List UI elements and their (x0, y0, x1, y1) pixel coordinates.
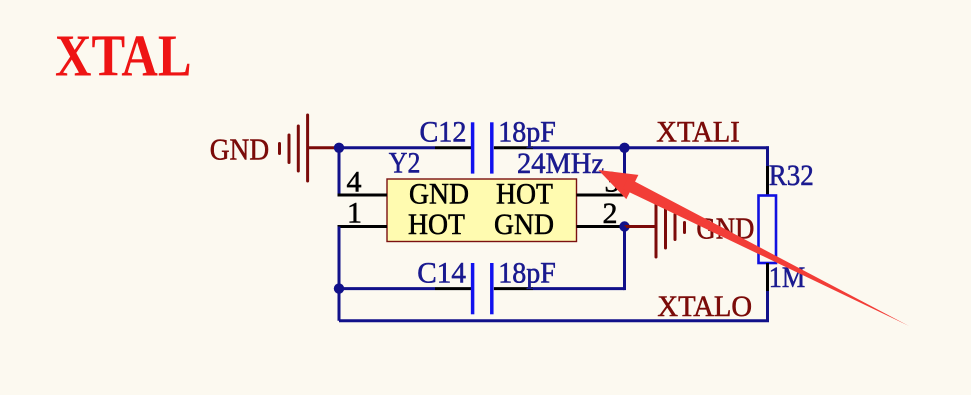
junction dot: pin 2 / GND node (619, 221, 629, 231)
svg-text:R32: R32 (769, 159, 814, 192)
wire: XTALI node to top-right corner (625, 146, 770, 149)
svg-text:XTALI: XTALI (656, 116, 740, 149)
wire: C12 right lead to XTALI node (533, 146, 625, 149)
annotation arrow (red) (598, 170, 909, 326)
svg-text:1: 1 (347, 197, 362, 230)
wire: C14 row right (533, 287, 625, 290)
wire: left vertical upper (GND node to pin 4) (338, 148, 341, 195)
wire: left vertical lower (pin 1 down to bottom) (338, 227, 341, 321)
svg-text:18pF: 18pF (498, 116, 556, 149)
capacitor C14 (435, 263, 533, 314)
junction dot: GND/C12 node (334, 143, 344, 153)
svg-text:24MHz: 24MHz (517, 147, 604, 180)
svg-text:GND: GND (409, 177, 469, 210)
wire: top, GND node to C12 left lead (339, 146, 435, 149)
svg-text:Y2: Y2 (389, 146, 421, 179)
crystal Y2 body (387, 179, 577, 242)
wire: XTALI node down to pin 3 (623, 148, 626, 195)
wire: middle ground stem (625, 225, 657, 228)
pin 2 lead (577, 225, 625, 228)
svg-text:HOT: HOT (408, 208, 465, 241)
junction dot: XTALO/C14 node (334, 283, 344, 293)
ground symbol (middle) (656, 198, 685, 257)
svg-text:HOT: HOT (496, 177, 553, 210)
resistor R32 (759, 166, 777, 291)
wire: left ground stem (308, 146, 339, 149)
junction dot: XTALI node (619, 143, 629, 153)
svg-text:XTALO: XTALO (657, 290, 752, 323)
capacitor C12 (435, 122, 533, 173)
svg-text:C14: C14 (417, 256, 466, 289)
svg-text:XTAL: XTAL (55, 23, 192, 89)
wire: pin 2 node down to C14 row (623, 227, 626, 291)
svg-text:GND: GND (210, 132, 269, 167)
wire: right vertical upper (to R32) (766, 146, 769, 166)
wire: C14 row left (339, 287, 435, 290)
wire: bottom XTALO horizontal (339, 319, 769, 322)
ground symbol (left) (280, 115, 308, 181)
pin 1 lead (338, 225, 388, 228)
svg-text:C12: C12 (420, 116, 467, 149)
svg-text:18pF: 18pF (498, 256, 556, 289)
pin 4 lead (338, 194, 388, 197)
pin 3 lead (577, 194, 625, 197)
wire: right vertical lower (R32 to bottom corner) (766, 291, 769, 321)
svg-text:4: 4 (347, 166, 362, 199)
svg-text:2: 2 (603, 197, 618, 230)
svg-text:GND: GND (494, 208, 554, 241)
